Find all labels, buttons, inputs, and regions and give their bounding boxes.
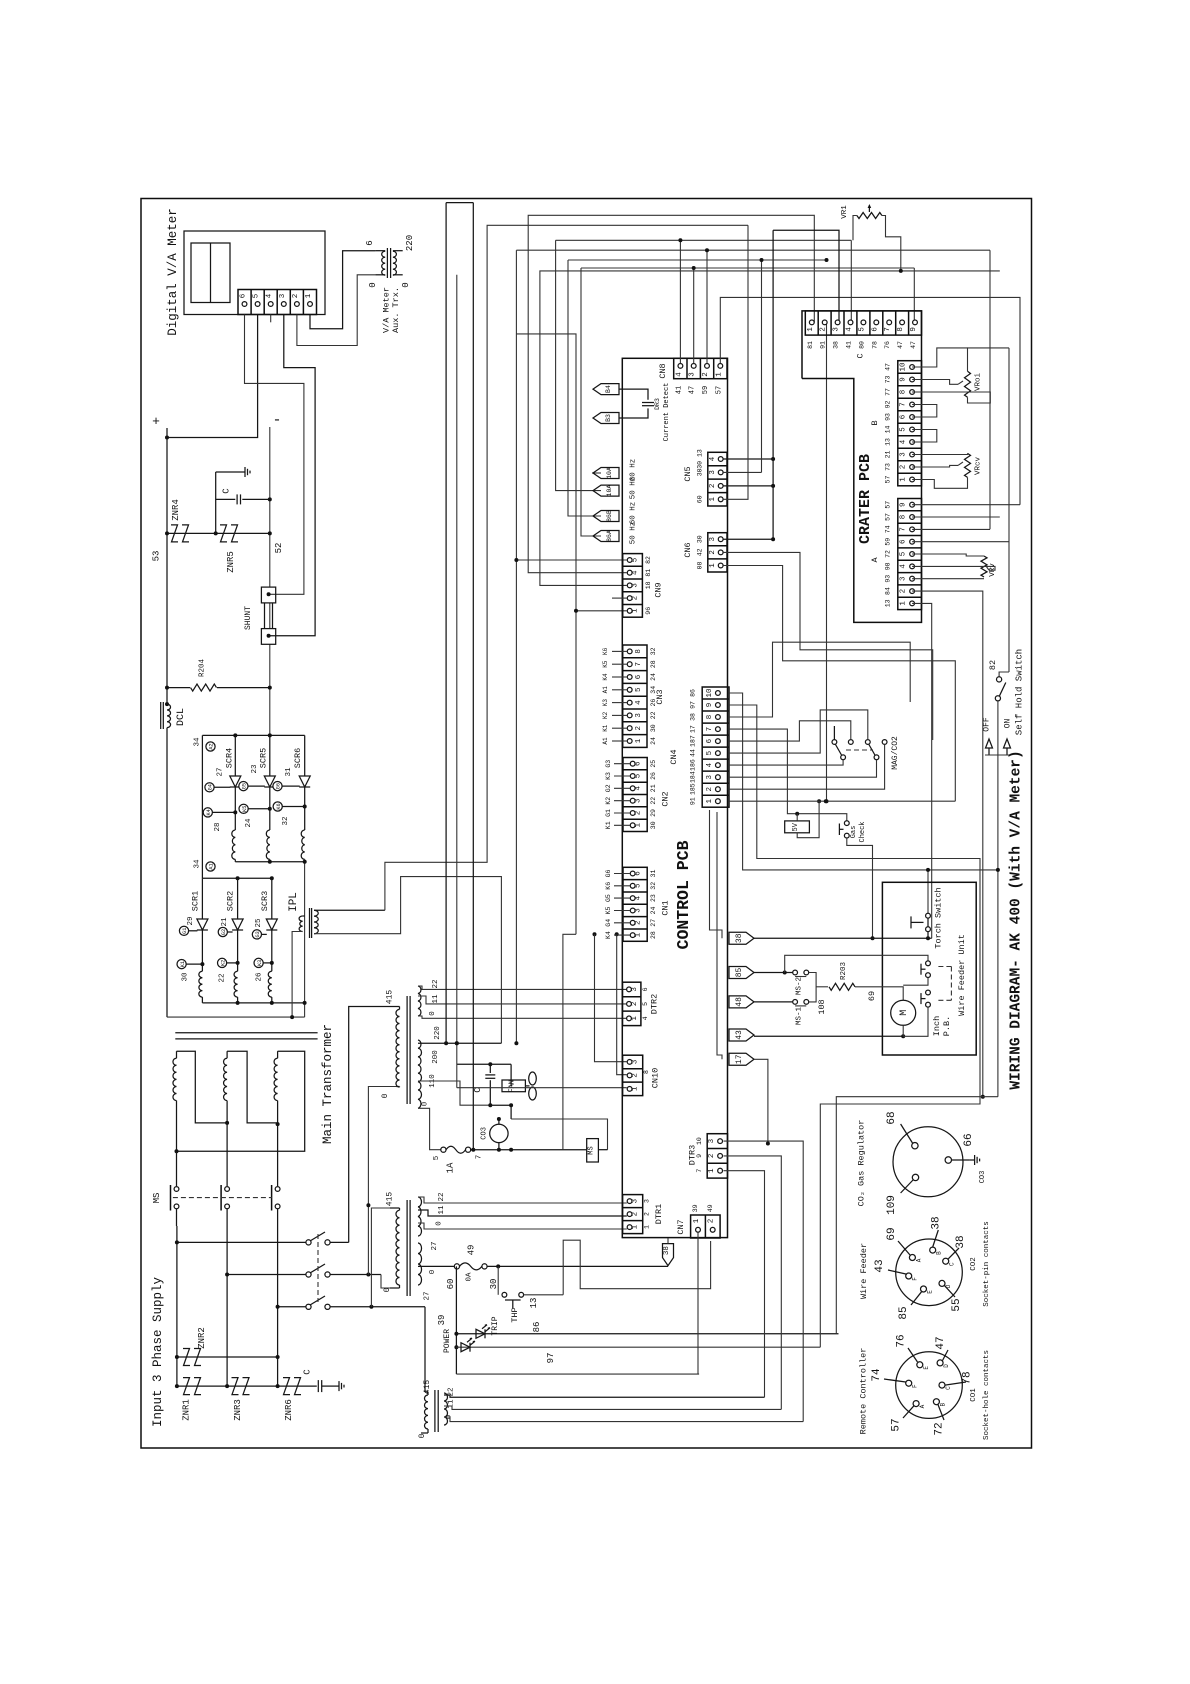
svg-text:220: 220	[405, 235, 415, 251]
wire CN9 pin4 bus	[528, 215, 814, 572]
flag 85	[729, 967, 754, 979]
svg-text:K2: K2	[605, 797, 612, 805]
svg-text:B: B	[939, 1403, 946, 1407]
svg-text:Remote Controller: Remote Controller	[858, 1348, 868, 1435]
svg-text:4: 4	[635, 700, 643, 705]
wire fan bottom loop	[511, 1119, 607, 1150]
gate G2	[218, 927, 227, 936]
svg-text:17: 17	[735, 1054, 744, 1064]
svg-text:Input 3 Phase Supply: Input 3 Phase Supply	[151, 1276, 165, 1427]
fan FAN	[502, 1080, 525, 1092]
svg-text:G2: G2	[221, 929, 227, 935]
svg-text:21: 21	[221, 917, 229, 927]
svg-text:0: 0	[436, 1221, 444, 1226]
svg-text:OFF: OFF	[983, 717, 992, 732]
svg-text:A1: A1	[602, 686, 609, 694]
svg-text:27: 27	[650, 919, 657, 927]
svg-text:3: 3	[709, 536, 717, 541]
svg-text:5: 5	[858, 327, 866, 332]
svg-text:CO3: CO3	[481, 1127, 489, 1140]
svg-text:10: 10	[696, 1137, 703, 1145]
svg-text:43: 43	[735, 1030, 744, 1040]
svg-text:5: 5	[899, 551, 907, 556]
svg-text:ZNR2: ZNR2	[197, 1327, 207, 1349]
svg-text:220: 220	[434, 1026, 442, 1040]
svg-text:Socket-pin contacts: Socket-pin contacts	[983, 1221, 991, 1307]
svg-text:23: 23	[650, 894, 657, 902]
svg-text:50 Hz: 50 Hz	[629, 477, 637, 500]
svg-text:30: 30	[697, 535, 704, 543]
svg-text:K4: K4	[605, 931, 612, 939]
svg-text:2: 2	[631, 1002, 639, 1007]
svg-text:A: A	[915, 1258, 922, 1262]
svg-text:K3: K3	[602, 699, 609, 707]
svg-text:ZNR5: ZNR5	[226, 551, 236, 573]
svg-text:1: 1	[899, 601, 907, 606]
svg-text:DTR1: DTR1	[654, 1204, 664, 1224]
svg-text:1: 1	[631, 1016, 639, 1021]
wires T2 sec1 to DTR2	[418, 986, 627, 989]
wires CN7	[697, 1232, 699, 1374]
svg-text:41: 41	[846, 341, 853, 349]
svg-text:26: 26	[650, 772, 657, 780]
internal link lines	[728, 937, 730, 939]
flag 38 output	[729, 932, 754, 944]
flag 43	[729, 1029, 754, 1041]
motor M	[891, 1000, 916, 1025]
svg-text:CO3: CO3	[979, 1171, 987, 1184]
svg-text:9: 9	[899, 377, 907, 382]
wires to MS contacts	[176, 1151, 178, 1186]
cathode K5	[269, 787, 271, 830]
svg-text:49: 49	[466, 1245, 476, 1256]
svg-text:R203: R203	[840, 962, 848, 981]
svg-text:27: 27	[424, 1291, 432, 1300]
svg-text:B3: B3	[605, 414, 612, 422]
svg-text:10A: 10A	[606, 485, 613, 497]
svg-text:DR3: DR3	[654, 398, 661, 410]
svg-text:2: 2	[708, 1154, 716, 1159]
svg-text:6: 6	[635, 674, 643, 679]
flag wires 10A/86B/86A	[556, 240, 601, 490]
bracket B7-B6	[912, 405, 937, 418]
svg-text:8: 8	[899, 390, 907, 395]
svg-text:C: C	[855, 353, 865, 358]
svg-text:CN2: CN2	[661, 791, 671, 806]
svg-text:3: 3	[635, 713, 643, 718]
svg-text:5: 5	[433, 1155, 441, 1160]
svg-text:21: 21	[884, 451, 891, 459]
svg-text:3: 3	[899, 576, 907, 581]
svg-text:76: 76	[896, 1334, 908, 1347]
svg-text:47: 47	[689, 386, 697, 394]
svg-text:7: 7	[476, 1155, 484, 1160]
varistor ZNR4	[171, 525, 178, 542]
wire 220 node to fan	[457, 1063, 511, 1065]
wire MS link	[809, 973, 816, 1002]
svg-text:18: 18	[645, 581, 652, 589]
wire meter pin5 to + rail	[167, 315, 258, 438]
svg-text:1: 1	[632, 608, 640, 613]
relay 5V	[785, 821, 810, 833]
svg-text:13: 13	[884, 599, 891, 607]
svg-text:Gas: Gas	[850, 826, 858, 839]
ground	[334, 1385, 339, 1387]
flag 38 down	[663, 1244, 674, 1266]
wire 38 to torch	[754, 937, 932, 939]
connector DTR1	[623, 1195, 643, 1234]
flag 10A 60Hz	[593, 468, 619, 479]
svg-text:1: 1	[635, 738, 643, 743]
thermal switch THP	[497, 1266, 499, 1294]
wire to T2 primary bottom	[368, 1087, 396, 1275]
svg-text:THP: THP	[510, 1307, 520, 1322]
svg-text:1: 1	[899, 477, 907, 482]
svg-text:77: 77	[884, 388, 891, 396]
connector DTR3	[707, 1134, 727, 1178]
svg-text:3: 3	[899, 452, 907, 457]
coil	[232, 830, 236, 859]
svg-text:14: 14	[884, 426, 891, 434]
wire 85 route	[754, 972, 793, 974]
svg-text:42: 42	[697, 548, 704, 556]
svg-text:22: 22	[438, 1192, 446, 1201]
svg-text:72: 72	[934, 1422, 946, 1435]
svg-text:2: 2	[632, 1073, 640, 1078]
svg-text:K6: K6	[276, 803, 282, 809]
svg-text:32: 32	[650, 882, 657, 890]
box Wire Feeder Unit	[882, 882, 976, 1055]
svg-text:M: M	[899, 1010, 910, 1016]
svg-text:10: 10	[706, 688, 714, 698]
svg-text:48: 48	[735, 997, 744, 1007]
svg-text:3: 3	[708, 1138, 716, 1143]
gate G1	[179, 926, 188, 935]
svg-text:MS-1: MS-1	[796, 1007, 804, 1026]
svg-text:R204: R204	[199, 659, 207, 678]
varistor row ZNR1 ZNR3 ZNR6	[177, 1385, 317, 1387]
svg-text:CN6: CN6	[683, 542, 693, 557]
connector CN9	[623, 554, 643, 618]
svg-text:3: 3	[689, 372, 697, 377]
svg-text:53: 53	[152, 551, 162, 562]
wire fuse to MS coil	[471, 1149, 587, 1151]
svg-text:CN9: CN9	[654, 582, 664, 597]
svg-text:4: 4	[709, 456, 717, 461]
svg-text:SHUNT: SHUNT	[244, 606, 253, 630]
svg-text:91: 91	[690, 797, 697, 805]
svg-text:CO₂ Gas Regulator: CO₂ Gas Regulator	[856, 1120, 866, 1207]
wire to T2 primary top	[349, 1007, 397, 1243]
wire to CN7 pin1	[456, 1373, 699, 1375]
inductor DCL	[165, 702, 169, 706]
svg-text:+: +	[152, 414, 160, 429]
svg-text:24: 24	[650, 907, 657, 915]
svg-text:1: 1	[709, 497, 717, 502]
svg-text:8: 8	[897, 327, 905, 332]
svg-text:4: 4	[634, 895, 642, 900]
svg-text:25: 25	[255, 918, 263, 928]
svg-text:30: 30	[650, 724, 657, 732]
svg-text:0A: 0A	[466, 1272, 474, 1282]
svg-text:9: 9	[696, 1154, 703, 1158]
flag 86B	[593, 511, 619, 522]
svg-text:57: 57	[891, 1418, 903, 1431]
svg-text:CO1: CO1	[970, 1388, 978, 1402]
CONTROL PCB board	[622, 358, 727, 1237]
svg-text:3: 3	[632, 1198, 640, 1203]
svg-text:84: 84	[884, 587, 891, 595]
svg-text:60: 60	[446, 1279, 456, 1290]
connector B	[898, 361, 922, 486]
flag 17	[729, 1053, 754, 1065]
coil	[268, 971, 272, 997]
wires T3 sec1 to DTR1	[418, 1197, 627, 1203]
svg-text:5: 5	[706, 750, 714, 755]
svg-text:MAG/CO2: MAG/CO2	[891, 736, 900, 770]
svg-text:08: 08	[697, 562, 704, 570]
svg-text:69: 69	[886, 1227, 898, 1240]
wires DTR3	[724, 1141, 804, 1422]
svg-text:13: 13	[529, 1298, 539, 1309]
svg-text:92: 92	[884, 401, 891, 409]
svg-text:Main Transformer: Main Transformer	[321, 1024, 335, 1144]
dashed link	[317, 1234, 319, 1302]
cathode K4	[234, 787, 236, 830]
svg-text:34: 34	[193, 859, 201, 869]
svg-text:11: 11	[432, 994, 440, 1004]
svg-text:K3: K3	[605, 772, 612, 780]
svg-text:G5: G5	[242, 783, 248, 789]
resistor R203	[829, 983, 855, 990]
disconnect switch row2	[227, 1274, 305, 1276]
wire CN9 pin3 bus	[540, 271, 1000, 586]
svg-text:IPL: IPL	[288, 892, 300, 912]
svg-text:0: 0	[422, 1101, 430, 1106]
svg-text:C: C	[303, 1369, 313, 1375]
svg-text:23: 23	[251, 764, 259, 774]
connector DTR2	[623, 982, 641, 1025]
svg-text:G3: G3	[255, 931, 261, 937]
CO2 Gas Regulator socket	[893, 1127, 963, 1197]
svg-text:97: 97	[690, 701, 697, 709]
switch MAG/CO2	[832, 740, 837, 745]
svg-text:SCR5: SCR5	[258, 748, 268, 768]
svg-text:1: 1	[305, 293, 313, 298]
svg-text:C: C	[222, 488, 232, 494]
svg-text:2: 2	[632, 596, 640, 601]
svg-text:2: 2	[632, 1212, 640, 1217]
svg-text:9: 9	[899, 502, 907, 507]
pushbutton Gas Check	[844, 821, 849, 826]
svg-text:SCR4: SCR4	[224, 748, 234, 768]
phase rails	[176, 1226, 178, 1386]
svg-text:38: 38	[955, 1235, 967, 1248]
svg-text:31: 31	[285, 767, 293, 777]
svg-text:3: 3	[634, 798, 642, 803]
svg-text:DCL: DCL	[176, 708, 187, 726]
svg-text:1: 1	[632, 1086, 640, 1091]
svg-text:ZNR3: ZNR3	[233, 1399, 243, 1421]
svg-text:Current Detect: Current Detect	[663, 383, 671, 442]
svg-text:FAN: FAN	[509, 1080, 517, 1093]
svg-text:CN5: CN5	[683, 466, 693, 481]
transformer V/A Meter Aux. Trx.	[386, 248, 388, 278]
svg-text:6: 6	[899, 414, 907, 419]
svg-text:66: 66	[963, 1133, 975, 1146]
cathode K1	[201, 930, 203, 971]
svg-text:CN8: CN8	[658, 363, 668, 378]
svg-text:38: 38	[663, 1246, 671, 1255]
gate G3	[252, 930, 261, 939]
wire meter pin1 to trx 6	[310, 251, 375, 329]
switch Torch Switch	[926, 913, 931, 918]
svg-text:68: 68	[886, 1111, 898, 1124]
svg-text:57: 57	[715, 386, 723, 394]
V/A meter terminal strip 6..1	[238, 290, 317, 315]
svg-text:6: 6	[240, 293, 248, 298]
svg-text:0: 0	[429, 1011, 437, 1016]
svg-text:MS-2: MS-2	[796, 977, 804, 995]
svg-text:85: 85	[735, 968, 744, 978]
svg-text:22: 22	[650, 711, 657, 719]
svg-text:K2: K2	[602, 711, 609, 719]
wires CN4 to MAG/CO2	[729, 693, 998, 870]
wires A connector	[912, 504, 1020, 506]
svg-text:26: 26	[650, 699, 657, 707]
svg-text:G1: G1	[182, 928, 188, 934]
svg-text:29: 29	[650, 809, 657, 817]
svg-text:MS: MS	[152, 1193, 162, 1204]
svg-text:6: 6	[706, 738, 714, 743]
svg-text:27: 27	[217, 767, 225, 776]
svg-text:Check: Check	[859, 821, 867, 842]
svg-text:82: 82	[645, 556, 652, 564]
svg-text:5: 5	[642, 1002, 649, 1006]
svg-text:2: 2	[708, 1219, 716, 1224]
wire trx0 drop	[456, 275, 458, 1088]
svg-text:185: 185	[690, 783, 697, 795]
svg-text:G4: G4	[208, 784, 214, 790]
svg-text:A: A	[870, 557, 880, 563]
svg-text:0: 0	[381, 1093, 390, 1098]
svg-text:3: 3	[632, 1059, 640, 1064]
svg-text:41: 41	[675, 386, 683, 394]
svg-text:2: 2	[702, 372, 710, 377]
svg-text:98: 98	[884, 562, 891, 570]
svg-text:86: 86	[690, 689, 697, 697]
svg-text:-: -	[272, 412, 281, 429]
svg-text:3: 3	[833, 327, 841, 332]
pushbutton inch pair1	[926, 961, 931, 966]
svg-text:187: 187	[690, 735, 697, 747]
wire CN5 p3 to C2	[723, 471, 761, 473]
wire meter pin6 to shunt top	[245, 315, 304, 595]
contacts MS-2	[793, 970, 798, 975]
svg-text:17: 17	[690, 725, 697, 733]
svg-text:MS: MS	[588, 1146, 596, 1154]
svg-text:VRoi: VRoi	[974, 373, 982, 392]
svg-text:3: 3	[644, 1199, 651, 1203]
svg-text:0: 0	[368, 282, 378, 287]
flag 48	[729, 996, 754, 1008]
svg-text:C: C	[945, 1386, 952, 1390]
svg-text:7: 7	[884, 327, 892, 332]
svg-text:47: 47	[897, 341, 904, 349]
connector CN10	[623, 1055, 643, 1095]
fuse 0A	[454, 1264, 459, 1269]
svg-text:A1: A1	[602, 737, 609, 745]
connector CN1	[623, 867, 647, 941]
svg-text:Aux. Trx.: Aux. Trx.	[391, 287, 401, 333]
svg-text:K4: K4	[602, 673, 609, 681]
flag B3	[593, 413, 619, 424]
svg-text:K1: K1	[602, 724, 609, 732]
svg-text:E: E	[927, 1290, 934, 1294]
svg-text:0: 0	[401, 282, 411, 287]
wire 110 tap	[418, 1081, 490, 1105]
svg-text:8: 8	[643, 1070, 650, 1074]
capacitor C	[215, 472, 217, 533]
svg-text:78: 78	[871, 341, 878, 349]
svg-text:Torch Switch: Torch Switch	[933, 887, 943, 948]
svg-text:80: 80	[858, 341, 865, 349]
wire scr top bus	[202, 734, 304, 736]
wire to T3 primary	[371, 1208, 390, 1307]
svg-text:24: 24	[245, 818, 253, 828]
varistor ZNR5	[220, 525, 227, 542]
svg-text:2: 2	[709, 484, 717, 489]
svg-text:7: 7	[706, 727, 714, 732]
svg-text:28: 28	[650, 931, 657, 939]
svg-text:59: 59	[884, 538, 891, 546]
svg-text:5: 5	[635, 687, 643, 692]
svg-text:11: 11	[438, 1205, 446, 1215]
svg-text:B4: B4	[605, 385, 612, 393]
svg-text:38: 38	[735, 933, 744, 943]
svg-text:93: 93	[884, 575, 891, 583]
svg-text:43: 43	[874, 1259, 886, 1272]
svg-text:D: D	[943, 1364, 950, 1368]
svg-text:G2: G2	[605, 784, 612, 792]
svg-text:VRcv: VRcv	[974, 457, 982, 476]
svg-text:3: 3	[709, 470, 717, 475]
flag B4	[593, 384, 619, 395]
svg-text:2: 2	[644, 1212, 651, 1216]
svg-text:26: 26	[256, 972, 264, 982]
svg-text:B: B	[870, 420, 880, 425]
wire znr row	[167, 532, 270, 534]
svg-text:4: 4	[675, 372, 683, 377]
valve CO3	[490, 1124, 508, 1142]
svg-text:91: 91	[820, 341, 827, 349]
wire ipl secondary to staircase	[314, 909, 385, 911]
svg-text:VR1: VR1	[841, 205, 849, 219]
svg-text:G6: G6	[276, 783, 282, 789]
svg-text:Wire Feeder: Wire Feeder	[859, 1243, 869, 1299]
svg-text:82: 82	[988, 660, 998, 670]
wire to CN10 pin1	[457, 1087, 627, 1089]
svg-text:13: 13	[884, 438, 891, 446]
svg-text:G5: G5	[605, 894, 612, 902]
svg-text:A1: A1	[209, 863, 215, 869]
connector CN7	[691, 1215, 721, 1238]
wire meter pin3 to shunt bottom	[270, 315, 315, 636]
svg-text:47: 47	[935, 1336, 947, 1349]
svg-text:108: 108	[817, 999, 827, 1014]
wires T4 to DTR3	[444, 1395, 765, 1397]
flag 86A	[593, 531, 619, 542]
